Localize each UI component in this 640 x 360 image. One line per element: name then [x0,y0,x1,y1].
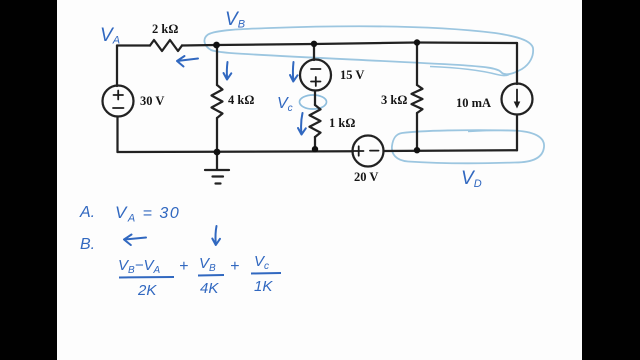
node bottom ground [214,149,221,156]
wire bottom right [384,149,518,152]
wire 10mA branch lower [516,115,518,151]
arrow down at 15V left [290,62,298,82]
node top at 15V [311,41,317,47]
source V3 20V circle [353,136,384,167]
resistor R4 3k [412,85,423,113]
svg-text:4 kΩ: 4 kΩ [228,93,254,107]
node-D loop inner stroke [468,130,515,131]
wire 10mA branch upper [516,43,518,84]
wire bottom left [118,150,354,153]
wire 3k branch lower [416,113,418,150]
V3 minus (right) [370,150,379,152]
I1 arrow shaft [516,90,518,105]
node bottom at 3k [414,147,420,153]
light blue node-D loop [392,130,544,163]
V3 plus (left) [354,146,364,155]
svg-text:1 kΩ: 1 kΩ [329,116,355,130]
node-B loop doubled lower stroke [430,67,509,76]
V1 minus [113,107,124,109]
node B top at 4k [213,42,220,49]
polarity marks [113,69,517,156]
light blue node-B loop [204,26,533,74]
right letterbox bar [582,0,640,360]
resistor R1 2k (top) [150,40,182,51]
node top at 3k [414,39,420,45]
source I1 10mA circle [502,84,533,115]
wire 15V to R3 [314,91,316,106]
V2 plus (bottom) [311,77,321,86]
left letterbox bar [0,0,57,360]
svg-text:2 kΩ: 2 kΩ [152,22,178,36]
resistor R3 1k [310,105,321,137]
svg-text:+: + [230,258,239,275]
arrow down at 4k top [224,62,232,80]
wire top from R1 to node B right end [182,43,517,46]
svg-text:10 mA: 10 mA [456,96,491,110]
wire left branch upper [116,46,118,87]
resistor R2 4k [212,85,223,118]
source V1 30V circle [103,86,134,117]
svg-text:VA = 30: VA = 30 [115,203,180,225]
component value labels [140,22,491,184]
node C small ellipse [300,95,327,109]
wire 15V branch upper [313,44,315,60]
svg-text:15 V: 15 V [340,68,364,82]
arrow left under R1 [177,56,198,67]
svg-text:3 kΩ: 3 kΩ [381,93,407,107]
svg-text:A.: A. [79,204,95,221]
blue annotations [124,56,306,245]
node dots [213,39,420,155]
I1 arrow head [514,102,521,109]
svg-text:4K: 4K [200,280,219,297]
wire left branch lower [116,117,118,153]
svg-text:B.: B. [80,236,95,253]
eq bar 2 [198,274,224,277]
arrow down below node C [298,113,306,135]
svg-text:2K: 2K [137,282,157,299]
eq bar 1 [119,276,174,279]
ground [205,152,229,184]
wire top-left segment [117,44,150,46]
wire 4k branch upper [216,45,218,85]
wire 4k branch lower [216,118,218,152]
wire R3 to bottom [314,137,316,149]
svg-text:1K: 1K [254,278,273,295]
svg-text:+: + [179,258,188,275]
V1 plus [114,91,124,100]
V2 minus (top) [311,68,321,70]
arrow down in line B [212,226,220,245]
node bottom at 1k [312,146,318,152]
svg-text:20 V: 20 V [354,170,378,184]
svg-text:30 V: 30 V [140,94,164,108]
arrow left in line B [124,235,146,246]
source V2 15V circle [300,60,331,91]
wire 3k branch upper [416,43,418,86]
eq bar 3 [251,272,281,275]
